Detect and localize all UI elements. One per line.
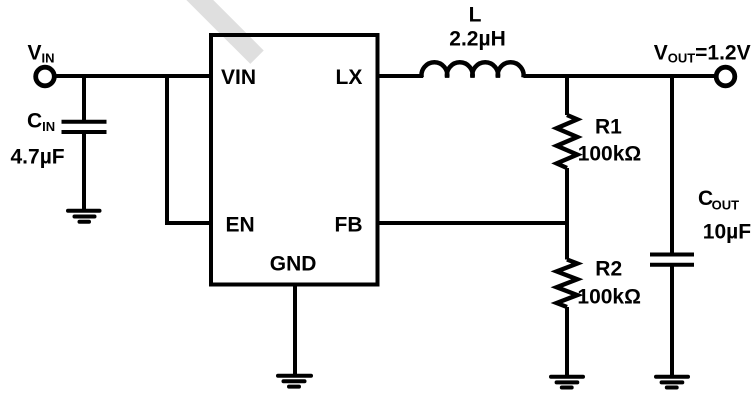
wire LX to inductor <box>378 74 424 78</box>
wire R2 to ground <box>565 307 569 377</box>
wire GND pin to ground <box>293 285 297 376</box>
wire R1 to FB node <box>565 168 569 225</box>
svg-text:LX: LX <box>336 66 363 89</box>
wire CIN branch <box>82 76 86 122</box>
resistor R2 <box>557 260 578 308</box>
ground for CIN <box>68 211 100 222</box>
svg-text:2.2µH: 2.2µH <box>449 27 505 50</box>
svg-text:R1: R1 <box>595 115 622 138</box>
ground for R2 <box>551 377 583 388</box>
wire FB <box>378 221 568 225</box>
svg-text:VIN: VIN <box>221 66 256 89</box>
svg-text:10µF: 10µF <box>703 221 751 244</box>
output terminal VOUT <box>716 67 735 86</box>
wire inductor to output <box>524 74 715 78</box>
wire R1 top stub <box>565 76 569 115</box>
ground for COUT <box>656 377 688 388</box>
resistor R1 <box>557 115 578 168</box>
capacitor CIN <box>62 122 107 132</box>
svg-text:100kΩ: 100kΩ <box>578 143 642 166</box>
svg-text:EN: EN <box>226 214 255 237</box>
svg-text:GND: GND <box>270 253 317 276</box>
input terminal VIN <box>36 67 55 86</box>
wire R2 top stub <box>565 223 569 260</box>
capacitor COUT <box>650 255 694 265</box>
wire COUT branch <box>670 76 674 255</box>
svg-text:4.7µF: 4.7µF <box>11 146 65 169</box>
wire COUT to ground <box>670 265 674 377</box>
op-amp U1 regulator IC box <box>211 35 378 285</box>
wire EN branch horizontal <box>165 221 211 225</box>
ground for GND pin <box>278 376 311 387</box>
svg-text:FB: FB <box>335 214 363 237</box>
svg-text:R2: R2 <box>595 257 622 280</box>
inductor L <box>422 62 524 77</box>
wire EN branch vertical <box>165 76 169 223</box>
svg-text:L: L <box>469 3 482 26</box>
svg-text:100kΩ: 100kΩ <box>577 286 641 309</box>
wire input to VIN pin <box>57 74 212 78</box>
wire CIN to ground <box>82 132 86 211</box>
